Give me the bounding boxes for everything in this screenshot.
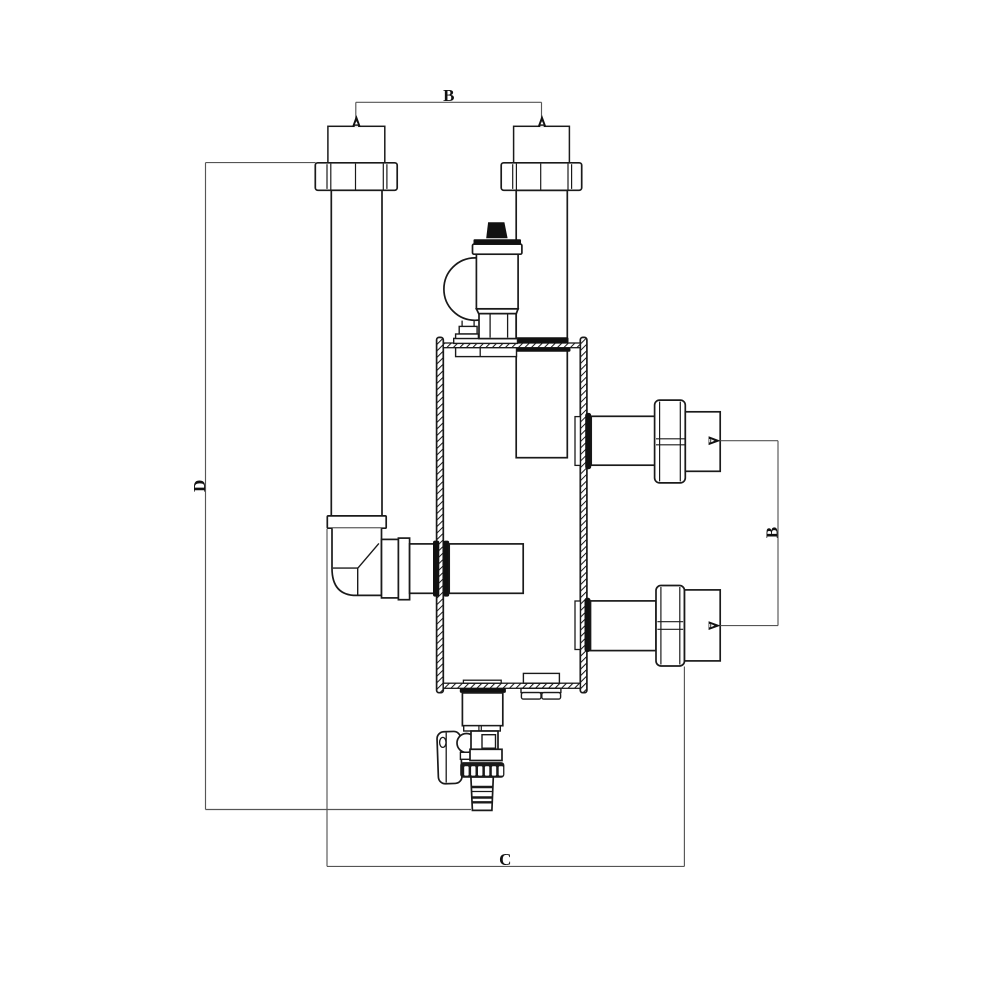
dim D top extension xyxy=(206,162,316,164)
label A top-right xyxy=(538,115,547,127)
drain valve pivot nut xyxy=(460,752,472,759)
drain weld band below vessel xyxy=(460,688,506,693)
lower right port weld band xyxy=(585,598,591,652)
air vent chamber neck xyxy=(462,321,474,327)
air vent socket inside vessel xyxy=(456,348,517,357)
air vent black cap xyxy=(486,222,507,238)
air vent top collar xyxy=(473,244,522,254)
svg-text:B: B xyxy=(762,527,781,538)
air vent hex xyxy=(479,313,516,338)
elbow outlet pipe xyxy=(410,544,437,593)
lower right pipe stub xyxy=(685,590,721,661)
label A top-left xyxy=(352,115,361,127)
lower right port socket xyxy=(575,601,580,650)
drain knurled nut xyxy=(461,763,504,777)
svg-text:C: C xyxy=(499,850,511,869)
bottom plug hex faces xyxy=(521,693,560,700)
vessel left end cap xyxy=(437,337,444,692)
upper right port tube xyxy=(591,416,656,465)
svg-text:D: D xyxy=(190,480,209,492)
elbow outlet hub xyxy=(382,539,399,598)
upper right union nut xyxy=(655,400,686,483)
lower right union nut xyxy=(656,586,685,667)
dim A upper leader xyxy=(720,440,778,442)
drain valve pivot boss xyxy=(457,734,476,753)
right union nut xyxy=(501,163,582,191)
internal inlet tube from elbow xyxy=(449,544,523,593)
drain valve mid body xyxy=(471,731,498,749)
dim D bottom extension xyxy=(206,809,472,811)
elbow top collar xyxy=(327,516,386,528)
vessel right end cap xyxy=(580,337,587,692)
dim C right extension xyxy=(683,667,685,867)
dim D vertical line xyxy=(205,163,207,810)
elbow body xyxy=(332,528,382,595)
left port weld band inner xyxy=(443,541,449,597)
left union nut xyxy=(315,163,397,191)
bottom plug socket inside vessel xyxy=(523,673,559,683)
drain hose barb xyxy=(471,777,493,810)
air vent body taper xyxy=(476,309,518,314)
air vent black band xyxy=(474,239,522,244)
left port weld band outer xyxy=(433,541,439,597)
vessel bottom wall xyxy=(443,683,580,688)
upper right port weld band xyxy=(585,413,591,469)
left vertical pipe xyxy=(331,190,382,516)
label A right-upper xyxy=(709,436,721,445)
dim B top right drop xyxy=(541,102,543,126)
air vent body xyxy=(476,254,518,309)
drain collar ring xyxy=(464,726,501,731)
upper right pipe stub xyxy=(685,412,720,472)
dim C left extension xyxy=(326,529,328,866)
dim B right vertical line xyxy=(777,441,779,626)
elbow outlet flange ring xyxy=(398,538,409,600)
air vent pedestal step xyxy=(459,326,477,334)
dim B top left drop xyxy=(355,102,357,126)
label A right-lower xyxy=(709,621,721,630)
weld band above top wall at dip tube xyxy=(516,337,569,343)
upper right port socket xyxy=(575,417,580,466)
left pipe top thread stub xyxy=(328,126,385,163)
right inlet pipe with internal dip tube xyxy=(516,190,567,457)
dimension lines xyxy=(206,102,779,866)
drain pipe xyxy=(462,693,502,726)
air vent mounting plate on vessel xyxy=(454,338,518,343)
dim C horizontal line xyxy=(327,865,684,867)
drain socket inside vessel xyxy=(463,680,501,683)
dim B top line xyxy=(356,101,542,103)
weld band below top wall at dip tube xyxy=(514,348,571,352)
air vent pedestal base xyxy=(456,334,479,339)
drain valve lower body xyxy=(470,749,502,760)
lower right port tube xyxy=(591,601,657,651)
dim A lower leader xyxy=(720,625,778,627)
bottom plug flange xyxy=(521,688,561,692)
vessel top wall xyxy=(443,343,580,348)
air vent float chamber xyxy=(444,258,506,320)
svg-text:B: B xyxy=(443,86,454,105)
drain valve handle lever xyxy=(437,731,462,784)
right pipe top thread stub xyxy=(514,126,570,163)
